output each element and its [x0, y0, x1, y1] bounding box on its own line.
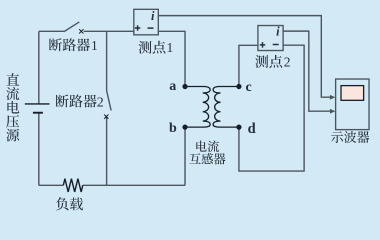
svg-text:i: i: [276, 25, 280, 39]
svg-text:2: 2: [97, 95, 104, 110]
svg-text:b: b: [169, 121, 177, 136]
svg-text:2: 2: [284, 55, 291, 70]
svg-text:1: 1: [91, 38, 98, 53]
svg-text:d: d: [248, 121, 256, 137]
svg-text:a: a: [169, 79, 176, 94]
svg-text:1: 1: [167, 40, 174, 55]
svg-text:c: c: [246, 80, 252, 95]
svg-text:i: i: [151, 9, 155, 23]
